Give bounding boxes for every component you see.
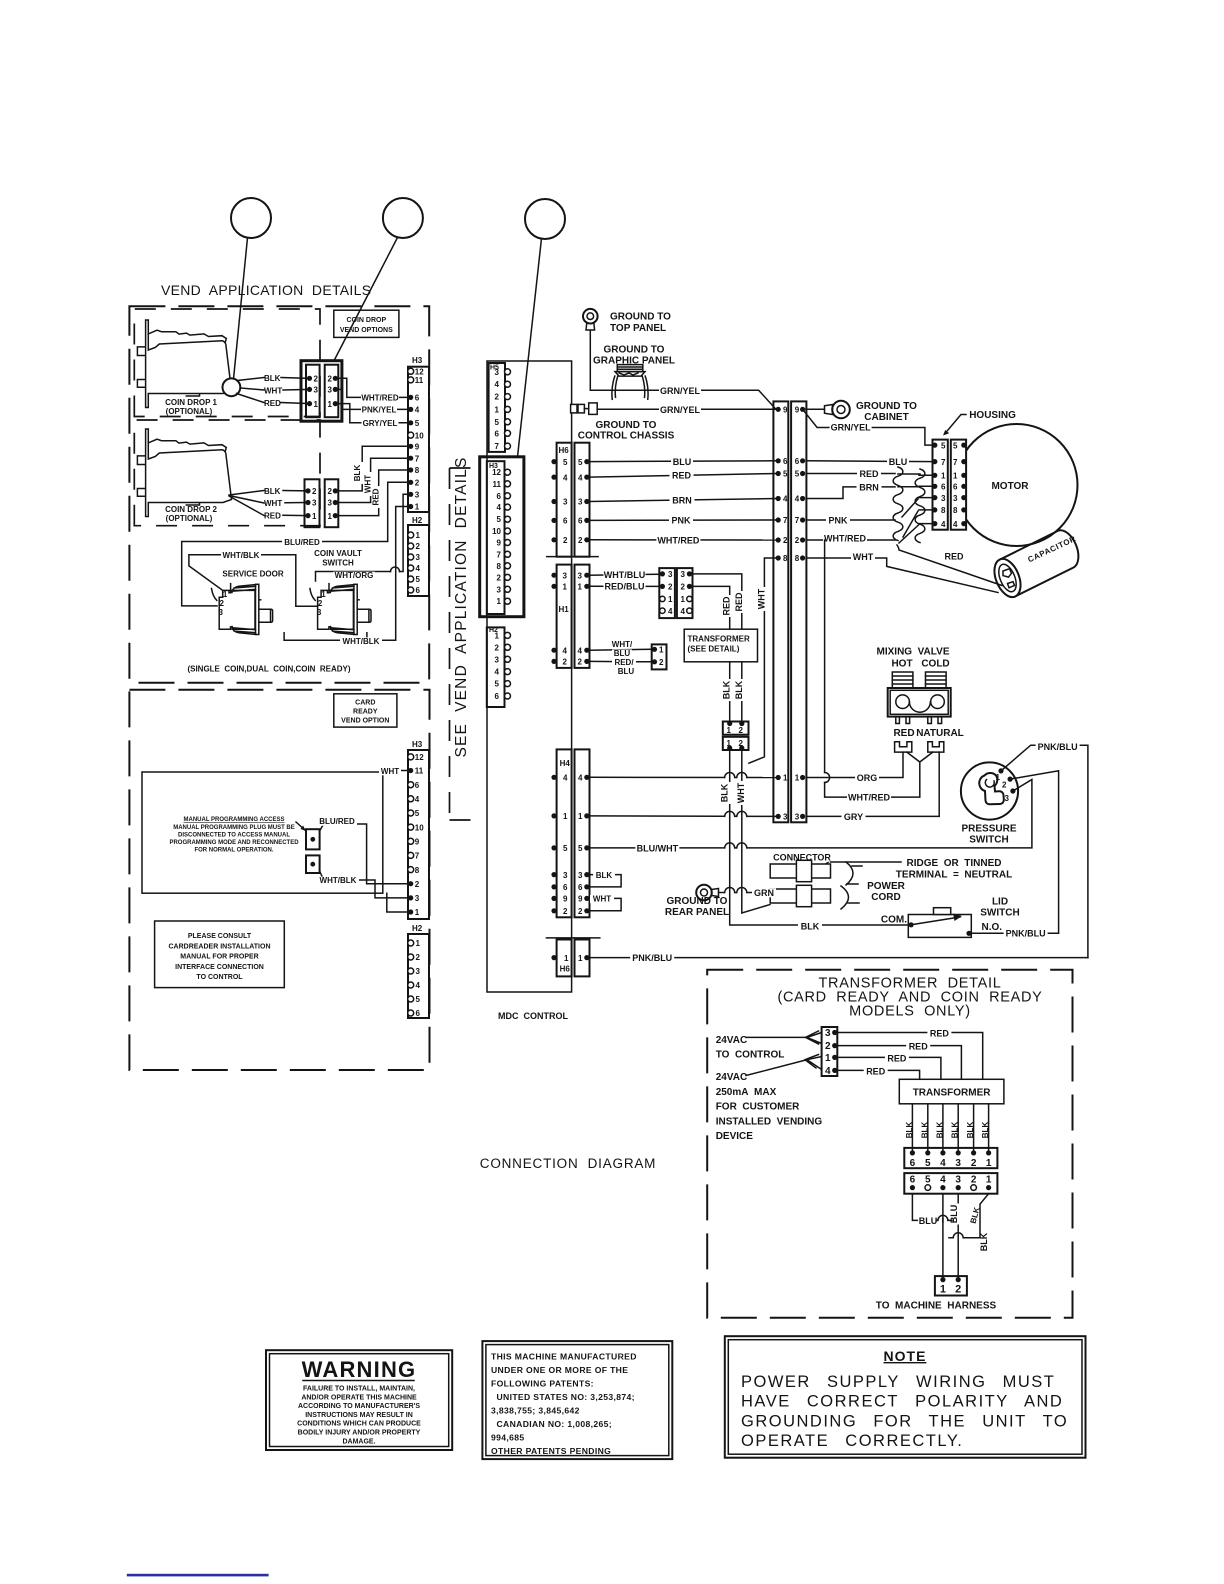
svg-text:6: 6 [910,1158,916,1169]
ground to control chassis crimp [571,404,577,413]
svg-text:3: 3 [941,494,946,503]
svg-text:7: 7 [783,516,788,525]
connector H6 left column [557,443,572,557]
programming plug 1 [306,829,320,849]
svg-text:3: 3 [681,570,686,579]
twisted wire bundle column 2 [915,469,925,543]
svg-text:MIXING VALVE: MIXING VALVE [877,647,950,658]
wire H1-2 RED/BLU to 2pin [590,660,652,662]
H4 jumper BLK pins 3-6 [587,875,621,887]
tdetail wire BLU pin6 [912,1194,919,1221]
svg-text:BLK: BLK [264,487,281,496]
svg-text:4: 4 [578,473,583,482]
coin drop 2 inner dashed box [134,420,320,526]
svg-text:WHT/RED: WHT/RED [657,535,699,545]
svg-text:WHT: WHT [381,767,399,776]
wire WHT/BLK service door pin1 [189,555,318,607]
svg-text:SWITCH: SWITCH [322,559,354,568]
svg-text:TOP PANEL: TOP PANEL [610,323,666,334]
svg-text:THIS MACHINE MANUFACTURED: THIS MACHINE MANUFACTURED [491,1352,637,1362]
svg-text:WHT/BLK: WHT/BLK [223,551,260,560]
svg-text:MDC CONTROL: MDC CONTROL [498,1011,568,1021]
svg-text:4: 4 [416,564,421,573]
svg-text:5: 5 [941,441,946,450]
svg-text:2: 2 [497,573,502,582]
svg-text:POWER SUPPLY WIRING MUST: POWER SUPPLY WIRING MUST [741,1373,1055,1391]
svg-text:GRY/YEL: GRY/YEL [363,419,398,428]
svg-text:H2: H2 [412,924,423,933]
svg-text:MANUAL PROGRAMMING ACCESS: MANUAL PROGRAMMING ACCESS [183,817,284,823]
svg-text:WHT/RED: WHT/RED [824,533,866,543]
svg-text:5: 5 [563,458,568,467]
svg-text:4: 4 [953,520,958,529]
svg-text:FOR NORMAL OPERATION.: FOR NORMAL OPERATION. [194,848,273,854]
label box CARD READY VEND OPTION [334,694,397,727]
svg-text:RED: RED [734,592,744,612]
ground to rear panel ring [696,885,712,901]
svg-text:1: 1 [312,512,317,521]
wire WHT P8 down to 2x2 [749,558,778,763]
svg-text:8: 8 [953,506,958,515]
svg-text:4: 4 [825,1066,831,1077]
transformer see detail box [684,629,757,662]
wire RED to capacitor [897,545,1002,586]
svg-text:(OPTIONAL): (OPTIONAL) [166,407,213,416]
svg-text:5: 5 [415,809,420,818]
svg-text:POWER: POWER [867,881,906,892]
svg-text:H3: H3 [412,356,423,365]
svg-text:FOLLOWING PATENTS:: FOLLOWING PATENTS: [491,1379,594,1389]
svg-text:2: 2 [312,487,317,496]
svg-text:3: 3 [578,871,583,880]
svg-text:TERMINAL = NEUTRAL: TERMINAL = NEUTRAL [896,870,1012,881]
coin drop 1 silhouette [137,320,231,408]
svg-text:INSTALLED VENDING: INSTALLED VENDING [716,1116,823,1127]
svg-text:WHT: WHT [756,588,766,609]
svg-text:GROUNDING FOR THE UNIT TO: GROUNDING FOR THE UNIT TO [741,1412,1068,1430]
harness strip right [791,401,806,822]
svg-text:4: 4 [563,774,568,783]
svg-text:6: 6 [910,1174,916,1185]
svg-text:9: 9 [415,443,420,452]
svg-text:2: 2 [415,880,420,889]
pair2 wire WHT to H3-7 [335,458,410,502]
connector H3 thick highlight box [480,457,524,617]
svg-text:RED: RED [887,1053,907,1063]
hops ORG wire [725,776,734,779]
wire PNK/BLU pressure 1 loop [1001,745,1088,957]
svg-text:1: 1 [578,954,583,963]
mixing valve legs [896,717,900,724]
svg-text:7: 7 [415,454,420,463]
svg-text:1: 1 [223,590,228,599]
wire H1-1 RED/BLU to 4pin [590,585,660,587]
svg-text:N.O.: N.O. [982,922,1003,933]
svg-text:WHT/ORG: WHT/ORG [335,571,374,580]
tdetail wire BLU hop [936,1219,938,1221]
svg-text:INSTRUCTIONS MAY RESULT IN: INSTRUCTIONS MAY RESULT IN [305,1412,413,1419]
coin drop 1 wires to connector [281,377,310,380]
wire H1-4 WHT/BLU to 2pin [590,648,652,651]
svg-text:3: 3 [415,491,420,500]
MDC CONTROL box [487,361,572,992]
pair2 wire RED to H3-8 [335,470,410,516]
svg-text:10: 10 [415,823,424,832]
wire H1-3 WHT/BLU to 4pin [590,574,660,575]
svg-text:2: 2 [825,1041,831,1052]
svg-text:WHT/BLU: WHT/BLU [604,570,646,580]
svg-text:8: 8 [783,554,788,563]
pressure switch toggle [979,773,1004,804]
svg-text:CARDREADER INSTALLATION: CARDREADER INSTALLATION [168,943,270,950]
lid switch blade and contacts [909,922,914,927]
svg-text:LID: LID [992,897,1008,908]
connector pair 4pin left half [659,568,675,618]
svg-text:4: 4 [495,668,500,677]
connector pair 1 left half [306,365,320,418]
mixing valve body [888,688,951,717]
bracket bottom arm [450,819,481,821]
coin drop 1 junction fan lines [237,378,265,403]
svg-text:BLK: BLK [979,1232,989,1251]
transformer detail dashed box [707,970,1072,1318]
svg-text:5: 5 [563,844,568,853]
svg-text:7: 7 [795,516,800,525]
pair2 wire BLK to H3-9 [335,446,410,491]
callout circle B [383,198,423,238]
svg-text:CONTROL CHASSIS: CONTROL CHASSIS [578,431,675,442]
wire BRN P4 to housing 6 (into twist) [806,487,895,499]
svg-text:TO CONTROL: TO CONTROL [716,1050,785,1061]
wire BLK power cord to lid COM [798,922,822,931]
svg-text:5: 5 [415,419,420,428]
svg-text:WARNING: WARNING [302,1357,417,1382]
svg-text:6: 6 [416,1009,421,1018]
svg-text:BRN: BRN [859,482,879,492]
svg-text:6: 6 [497,492,502,501]
wire WHT/BLK plug to H3-3 [320,871,408,898]
svg-text:H4: H4 [560,759,571,768]
2x2 connector top half [723,722,749,735]
pair1 wire WHT/RED to H3-6 [335,378,411,397]
svg-text:1: 1 [314,400,319,409]
twist internal links [898,474,920,543]
fuse holder connector 2 [770,889,830,903]
svg-text:BODILY INJURY AND/OR PROPERTY: BODILY INJURY AND/OR PROPERTY [298,1430,421,1437]
svg-text:WHT: WHT [853,552,874,562]
wire RED P5 to housing 1 (into twist) [806,473,895,475]
svg-text:4: 4 [941,520,946,529]
svg-text:PNK/BLU: PNK/BLU [632,953,672,963]
svg-text:10: 10 [492,527,501,536]
svg-text:3: 3 [955,1158,961,1169]
svg-text:4: 4 [415,406,420,415]
blue footer line [127,1574,269,1577]
svg-text:9: 9 [578,895,583,904]
coin drop 1 junction circle [223,378,241,396]
pair1 pins [307,376,312,381]
svg-text:2: 2 [328,487,333,496]
svg-text:4: 4 [940,1174,946,1185]
svg-text:BLU: BLU [673,457,692,467]
coin drop 2 junction fan lines [229,491,264,516]
callout circle A [231,198,271,238]
svg-text:3: 3 [317,608,322,617]
wire WHT/ORG coin vault to H3-3 [316,494,411,581]
svg-text:GRN/YEL: GRN/YEL [831,423,872,433]
svg-text:HOT: HOT [891,659,912,670]
svg-text:3: 3 [219,608,224,617]
wire WHT/RED H6-2 to P2 [590,539,779,541]
svg-text:3: 3 [328,386,333,395]
svg-text:994,685: 994,685 [491,1433,525,1443]
svg-text:2: 2 [416,953,421,962]
svg-text:MODELS ONLY): MODELS ONLY) [849,1004,971,1020]
wire RED 4pin-3 down to transformer [693,574,742,629]
svg-text:RED: RED [672,471,692,481]
coin drop connector pair 2 left half [305,479,320,527]
svg-text:RED: RED [930,1028,950,1038]
callout leader C [518,238,542,456]
svg-text:3: 3 [795,813,800,822]
svg-text:WHT/BLK: WHT/BLK [343,637,380,646]
mixing valve solenoid coils [892,672,913,688]
svg-text:5: 5 [495,680,500,689]
lid switch body [908,915,971,938]
svg-text:BLK: BLK [905,1122,914,1139]
cardreader note box [155,921,285,988]
ground to cabinet ring terminal [803,408,825,410]
svg-text:RIDGE OR TINNED: RIDGE OR TINNED [906,858,1001,869]
svg-text:2: 2 [416,542,421,551]
wire WHT 2x2 down to power cord [742,750,770,913]
svg-text:BLK: BLK [722,680,732,699]
ground to top panel ring terminal [583,309,598,324]
tdetail wire RED pin2 [837,1046,961,1080]
wire RED H6-4 to P5 [590,474,779,478]
svg-text:3: 3 [495,655,500,664]
svg-text:6: 6 [416,586,421,595]
connector pair 4pin right half [677,568,693,618]
tdetail label BLU [918,1217,938,1226]
svg-text:3: 3 [495,368,500,377]
svg-text:GRN/YEL: GRN/YEL [660,386,701,396]
svg-text:GROUND TO: GROUND TO [667,896,728,907]
svg-text:GROUND TO: GROUND TO [610,312,671,323]
2pin connector H1 [652,644,667,669]
svg-text:GRY: GRY [844,812,863,822]
svg-text:2: 2 [495,643,500,652]
pair1 wire GRY/YEL to H3-5 [335,404,411,423]
svg-text:4: 4 [668,607,673,616]
wire GRY P3 to valve NATURAL [806,752,939,816]
svg-text:4: 4 [795,495,800,504]
svg-text:VEND OPTIONS: VEND OPTIONS [340,327,393,334]
svg-text:CORD: CORD [871,892,900,903]
svg-text:H1: H1 [559,605,570,614]
wire BLU/RED plug to H3-2 [320,824,408,884]
svg-text:DAMAGE.: DAMAGE. [342,1438,375,1445]
svg-text:2: 2 [783,536,788,545]
svg-text:5: 5 [416,995,421,1004]
svg-text:RED: RED [859,469,879,479]
svg-text:TRANSFORMER: TRANSFORMER [913,1088,992,1099]
svg-text:VEND OPTION: VEND OPTION [341,718,389,725]
svg-text:AND/OR OPERATE THIS MACHINE: AND/OR OPERATE THIS MACHINE [301,1394,417,1401]
svg-text:HOUSING: HOUSING [969,410,1016,421]
svg-text:2: 2 [955,1284,961,1296]
svg-text:WHT: WHT [264,499,282,508]
svg-text:6: 6 [795,457,800,466]
coin vault switch [318,584,354,630]
wire WHT/BLK bottom to H3-1 [284,507,411,641]
svg-text:7: 7 [497,550,502,559]
svg-text:BLK: BLK [951,1122,960,1139]
svg-text:4: 4 [495,380,500,389]
connector pair 1 right half [325,365,339,418]
svg-text:1: 1 [659,646,664,655]
svg-text:2: 2 [681,583,686,592]
svg-text:3: 3 [563,571,568,580]
svg-text:GROUND TO: GROUND TO [856,401,917,412]
connector H4 right column [575,749,590,917]
svg-text:CANADIAN NO: 1,008,265;: CANADIAN NO: 1,008,265; [491,1419,612,1429]
wire WHT/RED P2 into twist [806,539,895,541]
svg-text:3: 3 [416,553,421,562]
svg-text:PNK/BLU: PNK/BLU [1006,928,1046,938]
capacitor cylinder [1000,530,1078,596]
svg-text:BLU/RED: BLU/RED [319,817,355,826]
svg-text:TO CONTROL: TO CONTROL [196,974,243,981]
svg-text:2: 2 [495,393,500,402]
svg-text:BLK: BLK [966,1122,975,1139]
svg-text:RED/BLU: RED/BLU [605,582,645,592]
svg-text:DISCONNECTED TO ACCESS MANUAL: DISCONNECTED TO ACCESS MANUAL [178,833,290,839]
svg-text:3: 3 [415,894,420,903]
wire pressure 2 to lid NO [969,771,1059,934]
svg-text:CABINET: CABINET [864,412,908,423]
svg-text:RED: RED [944,551,964,561]
wire ground top panel [590,331,660,391]
svg-text:4: 4 [415,795,420,804]
svg-text:12: 12 [415,753,424,762]
svg-text:3: 3 [563,871,568,880]
wire GRN/YEL chassis to P9 [597,408,778,410]
wire RED 4pin-2 down to transformer [693,586,730,629]
svg-text:RED: RED [909,1042,929,1052]
svg-text:1: 1 [416,531,421,540]
svg-text:1: 1 [986,1174,992,1185]
tdetail 2pin bottom connector [935,1276,967,1295]
svg-text:SWITCH: SWITCH [980,908,1019,919]
svg-text:BLK: BLK [734,680,744,699]
svg-text:CARD: CARD [355,700,375,707]
svg-text:8: 8 [415,466,420,475]
svg-text:WHT/BLK: WHT/BLK [320,876,357,885]
svg-text:1: 1 [495,631,500,640]
wire BLU/RED service door to H3-2 [182,482,411,606]
wires out of twist to housing [919,474,935,476]
svg-text:WHT/RED: WHT/RED [361,394,399,403]
svg-text:8: 8 [497,562,502,571]
svg-text:PROGRAMMING MODE AND RECONNECT: PROGRAMMING MODE AND RECONNECTED [169,840,299,846]
svg-text:OTHER PATENTS PENDING: OTHER PATENTS PENDING [491,1446,611,1456]
svg-text:RED: RED [893,728,914,739]
svg-text:H3: H3 [412,740,423,749]
tdetail crimp chevron 1 [746,1036,807,1038]
svg-text:1: 1 [783,774,788,783]
svg-text:2: 2 [563,658,568,667]
wire H3-1 to box [387,893,408,912]
svg-text:ORG: ORG [857,773,878,783]
svg-text:COIN DROP 1: COIN DROP 1 [165,398,217,407]
housing pins [932,443,937,448]
separator line above H6 bottom [546,937,599,939]
svg-text:6: 6 [578,883,583,892]
svg-text:TO MACHINE HARNESS: TO MACHINE HARNESS [876,1301,997,1312]
svg-text:1: 1 [563,812,568,821]
svg-text:FOR CUSTOMER: FOR CUSTOMER [716,1102,800,1113]
svg-text:COIN VAULT: COIN VAULT [314,549,362,558]
svg-text:OPERATE CORRECTLY.: OPERATE CORRECTLY. [741,1432,963,1450]
H6 pins [551,459,556,464]
tdetail crimp chevron 2 [746,1060,807,1076]
svg-text:1: 1 [727,726,732,735]
svg-text:3: 3 [312,499,317,508]
svg-text:1: 1 [415,503,420,512]
svg-text:4: 4 [497,503,502,512]
svg-text:8: 8 [415,866,420,875]
svg-text:1: 1 [668,595,673,604]
svg-text:GROUND TO: GROUND TO [604,345,665,356]
svg-text:1: 1 [495,405,500,414]
svg-text:WHT/: WHT/ [612,640,633,649]
svg-text:HAVE CORRECT POLARITY AND: HAVE CORRECT POLARITY AND [741,1393,1063,1411]
svg-text:3: 3 [416,967,421,976]
coin drop 1 inner dashed box [134,309,320,417]
H4 jumper WHT pins 9-2 [587,898,621,910]
4pin pins [660,571,665,576]
label WHT/RED valve [847,793,891,802]
svg-text:1: 1 [328,512,333,521]
svg-text:BLU: BLU [614,649,631,658]
wire GRN/YEL graphic panel to P9 [660,390,776,409]
svg-text:RED: RED [866,1066,886,1076]
svg-text:INTERFACE CONNECTION: INTERFACE CONNECTION [175,964,264,971]
svg-text:1: 1 [497,597,502,606]
warning box [266,1350,452,1450]
svg-text:5: 5 [578,844,583,853]
svg-text:4: 4 [578,774,583,783]
svg-text:2: 2 [328,375,333,384]
svg-text:RED: RED [722,596,732,616]
svg-text:3: 3 [328,499,333,508]
svg-text:5: 5 [495,418,500,427]
transformer output wires BLK x6 [911,1104,913,1150]
svg-text:COLD: COLD [921,659,949,670]
svg-text:250mA MAX: 250mA MAX [716,1087,777,1098]
svg-text:5: 5 [497,515,502,524]
svg-text:NATURAL: NATURAL [916,728,964,739]
svg-text:COIN DROP 2: COIN DROP 2 [165,505,217,514]
motor circle [956,424,1078,546]
power cord arcs [841,862,853,909]
svg-text:3: 3 [1005,794,1010,803]
tdetail 6pin connector row1 [904,1148,997,1168]
wire BRN H6-3 to P4 [590,499,779,502]
svg-text:2: 2 [318,599,323,608]
svg-text:SEE VEND APPLICATION DETAIL: SEE VEND APPLICATION DETAILS [453,456,470,757]
